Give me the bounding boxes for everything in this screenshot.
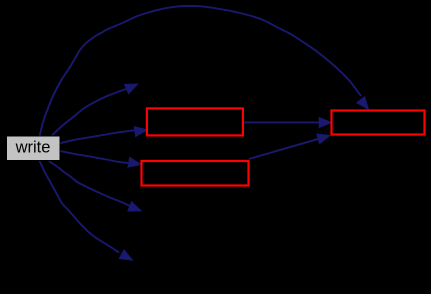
- arrowhead into box2: [128, 157, 142, 167]
- edge write -> right box (big top curve): [40, 6, 362, 136]
- arrowhead C: [119, 250, 133, 261]
- node box1 (red-bordered callee): [147, 108, 243, 135]
- edge write -> hidden node C (bottom): [40, 161, 120, 253]
- arrowhead A: [124, 84, 138, 94]
- edge box1 -> right box (horizontal): [244, 121, 320, 123]
- arrowhead box1 to right box: [319, 117, 332, 128]
- arrowhead big curve: [356, 96, 368, 109]
- node write (grey, current function): [7, 136, 61, 161]
- edge write -> hidden node A (upper short): [52, 89, 126, 136]
- edge write -> box2: [60, 151, 128, 163]
- edge box2 -> right box (diagonal): [249, 139, 319, 159]
- arrowhead box2 to right box: [317, 134, 331, 144]
- arrowhead B: [128, 201, 142, 211]
- node right box (red-bordered callee): [332, 111, 425, 135]
- svg-text:write: write: [15, 139, 51, 157]
- arrowhead into box1: [134, 126, 148, 136]
- edge write -> hidden node B (middle lower): [49, 161, 130, 206]
- edge write -> box1: [60, 130, 135, 143]
- node box2 (red-bordered callee): [142, 161, 249, 186]
